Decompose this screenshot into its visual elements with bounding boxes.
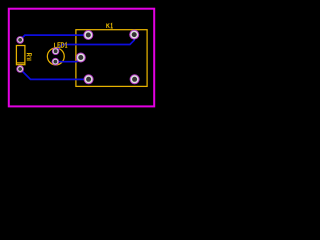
wire: LED1 cathode to K1 pad3 (net 4, bottom copper): [55, 58, 80, 62]
pad R1-1: [16, 36, 24, 44]
pad K1-2: [129, 30, 139, 40]
wire: LED1 anode to K1 pad2 (net 2, bottom copper): [56, 35, 135, 52]
pad LED1-A: [52, 47, 60, 55]
label R1 (rotated 90deg): [27, 54, 32, 57]
wire: R1 pad2 to K1 pad4 (net 3, bottom copper): [20, 69, 89, 79]
wire: R1 pad1 to K1 pad1 (net 1, bottom copper): [20, 35, 88, 40]
pad K1-1: [83, 30, 93, 40]
connector K1 outline: [76, 30, 147, 87]
board outline (keep-out border): [9, 9, 154, 107]
pad K1-5: [130, 74, 140, 84]
LED1 footprint circle: [47, 48, 64, 65]
resistor R1 body outline: [16, 46, 25, 65]
pad K1-4: [84, 74, 94, 84]
label LED1: [55, 43, 68, 48]
pad K1-3: [76, 53, 86, 63]
label K1: [107, 23, 113, 28]
pad LED1-K: [52, 58, 60, 66]
pad R1-2: [16, 65, 24, 73]
background: [0, 0, 164, 116]
